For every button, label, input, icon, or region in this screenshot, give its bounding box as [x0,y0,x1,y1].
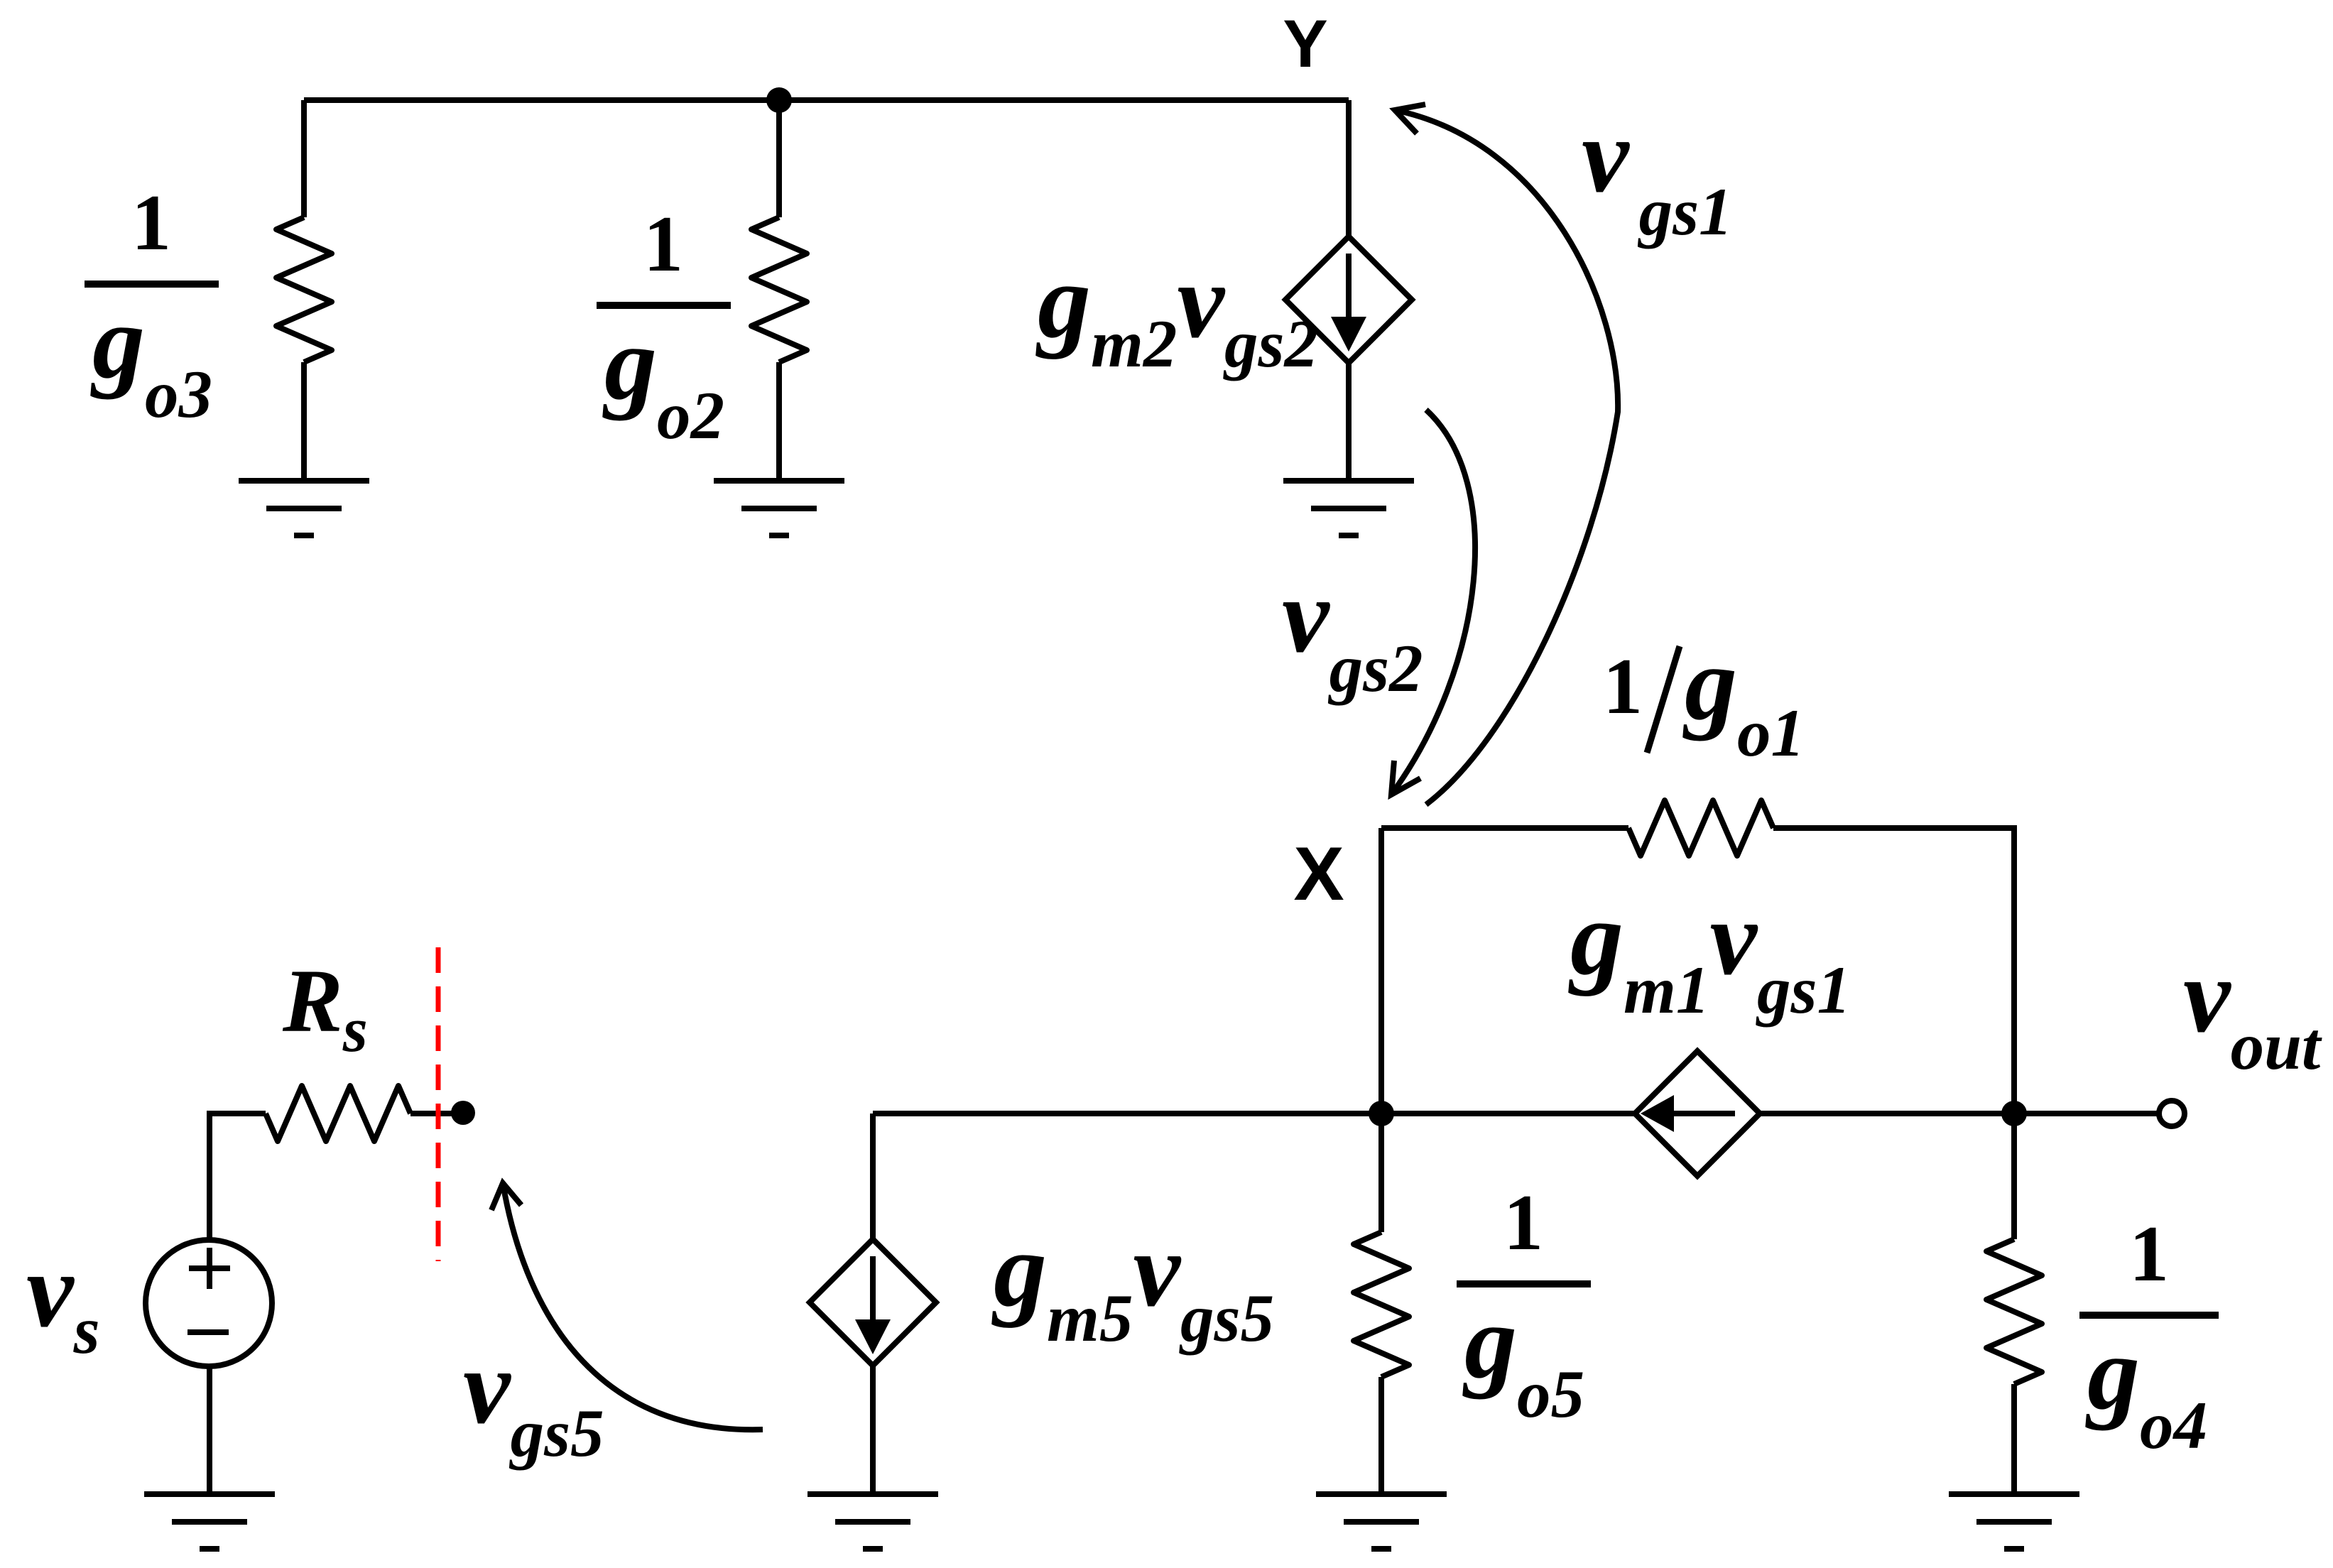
wire top rail node Y [304,97,1349,103]
ground under g_m5 source [807,1494,938,1549]
wire v_s to ground [207,1366,212,1494]
svg-text:1: 1 [1503,1179,1543,1267]
ground under 1/g_o3 [239,481,369,535]
dependent source g_m5 v_gs5 [810,1239,936,1366]
ground under 1/g_o2 [714,481,844,535]
wire Y corner down to source [1346,100,1352,236]
wire R5 leads [1378,1114,1384,1494]
svg-text:1: 1 [2129,1210,2169,1298]
wire g_m5 branch [870,1114,876,1494]
svg-text:X: X [1293,831,1344,916]
wire v_gs1 arc arrow [1395,110,1618,805]
ground under 1/g_o4 [1949,1494,2079,1549]
wire v_gs5 arc arrow [503,1183,763,1430]
label 1/g_o4 [2079,1312,2219,1319]
resistor 1/g_o1 [1628,800,1773,856]
svg-text:1: 1 [643,200,683,288]
resistor 1/g_o4 [1986,1239,2042,1384]
resistor R_s [266,1086,410,1141]
wire bottom rail left [873,1111,1635,1116]
node dot top [766,87,792,113]
wire bottom rail right [1760,1111,2159,1116]
node X dot [1369,1101,1394,1126]
resistor 1/g_o2 [751,217,807,362]
svg-text:1: 1 [131,179,171,267]
wire R3 leads [301,100,307,481]
node X wires [1381,828,1628,1114]
svg-text:Y: Y [1283,6,1327,82]
ground under v_s [144,1494,275,1549]
wire R_s to node [410,1111,465,1116]
wire v_gs2 arc arrow [1391,410,1475,795]
dependent source g_m1 v_gs1 [1635,1051,1760,1176]
wire R1 right to corner down [1773,828,2014,1114]
dependent source g_m2 v_gs2 [1285,236,1412,363]
red dashed separator line [436,947,441,1261]
terminal v_out open circle [2159,1101,2185,1126]
label 1/g_o5 [1457,1280,1591,1287]
ground under 1/g_o5 [1316,1494,1447,1549]
svg-text:1: 1 [1603,643,1643,731]
label 1/g_o2 [597,302,731,309]
resistor 1/g_o3 [276,217,332,362]
resistor 1/g_o5 [1354,1232,1409,1377]
wire v_s to R_s [210,1114,266,1240]
wire R2 leads [776,100,782,481]
ground under g_m2 source [1283,481,1414,535]
node v_out dot [2001,1101,2027,1126]
wire R4 leads [2011,1114,2017,1494]
wire source to ground [1346,363,1352,481]
node dot input [451,1101,475,1125]
label 1/g_o3 [85,281,219,288]
voltage source v_s [146,1240,272,1366]
